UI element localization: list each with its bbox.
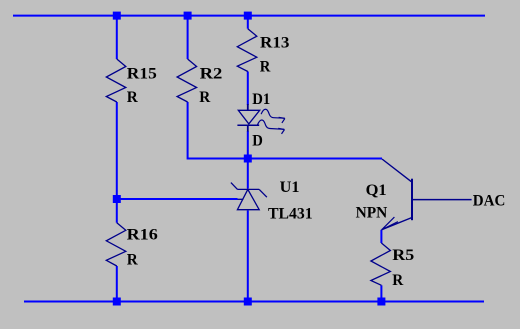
svg-text:R2: R2 [200,65,223,82]
wire R13 column upper [247,16,249,29]
svg-text:R: R [127,89,139,106]
diode D1 LED [237,104,259,132]
svg-text:U1: U1 [280,179,300,196]
junction top rail at R13 [244,12,252,20]
D1 light ray arrow 2 [257,120,284,134]
wire R15 bottom to R16 top [116,102,118,223]
wire R13 bottom to D1 anode [247,72,249,106]
svg-text:Q1: Q1 [366,182,387,199]
svg-text:DAC: DAC [473,193,506,210]
junction bottom rail at R16 [113,298,121,306]
svg-text:R: R [199,89,211,106]
svg-text:R: R [392,272,404,289]
wire R2 column upper [187,16,189,59]
wire D1 cathode to mid junction [247,131,249,159]
svg-text:R: R [127,252,139,269]
wire mid junction to U1 cathode [247,159,249,189]
shunt regulator U1 TL431 [231,183,267,210]
wire R15/R16 column upper [116,16,118,59]
junction bottom rail at R5 [377,298,385,306]
wire R5 bottom to rail [380,285,382,301]
svg-text:NPN: NPN [356,204,388,221]
wire U1 anode to bottom rail [247,211,249,302]
svg-text:R5: R5 [392,247,414,264]
wire R2 bottom to mid rail [188,102,382,159]
junction reference node at R15/R16 [113,195,121,203]
resistor R13 [237,29,256,72]
svg-text:R15: R15 [127,65,157,82]
svg-text:D1: D1 [252,91,270,108]
D1 light ray arrow 1 [261,109,285,123]
resistor R16 [106,223,126,266]
junction top rail at R2 [184,12,192,20]
svg-text:TL431: TL431 [268,205,313,222]
junction mid wire at D1 cathode [244,155,252,163]
svg-text:D: D [252,132,263,149]
wire Q1 emitter to R5 [380,230,382,243]
wire top rail [13,15,485,17]
junction bottom rail at U1 [244,298,252,306]
wire R16 bottom to rail [116,266,118,302]
resistor R2 [177,59,197,102]
resistor R5 [371,243,391,285]
wire reference node to U1 [117,198,238,200]
resistor R15 [106,59,126,102]
svg-text:R: R [260,59,271,76]
transistor Q1 [381,159,471,230]
wire bottom rail [24,301,484,303]
svg-text:R16: R16 [127,226,158,243]
junction top rail at R15 [113,12,121,20]
svg-text:R13: R13 [260,34,290,51]
